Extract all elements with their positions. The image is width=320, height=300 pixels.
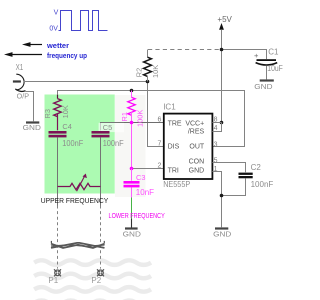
wire dashed +5V feed to R2 top: [148, 49, 222, 51]
wire jack sleeve to GND: [26, 92, 34, 122]
ground GND (IC): [213, 229, 231, 239]
wire R2 top corner: [147, 50, 149, 58]
svg-text:R1: R1: [120, 112, 129, 121]
wire +5V to C1: [222, 50, 267, 60]
svg-text:LOWER FREQUENCY: LOWER FREQUENCY: [109, 213, 166, 220]
pin names: [168, 120, 205, 174]
node +5V dashed junction: [220, 48, 224, 52]
node DIS junction: [146, 80, 150, 84]
wire DIS vertical to pin 7: [148, 82, 164, 147]
waveform graphic: [49, 9, 107, 32]
ground GND (C1): [254, 81, 273, 92]
wire OUT net: pin3 right, up, left to R3: [58, 91, 245, 147]
resistor R1: [120, 91, 145, 169]
svg-text:UPPER FREQUENCY: UPPER FREQUENCY: [41, 198, 109, 205]
svg-text:CON: CON: [189, 158, 205, 165]
op IC1 NE555P body: [157, 102, 217, 188]
svg-text:O/P: O/P: [17, 92, 29, 101]
label box C5: [99, 123, 124, 132]
node TRI junction (magenta): [130, 167, 134, 171]
svg-text:3: 3: [214, 142, 218, 149]
svg-text:10K: 10K: [151, 65, 160, 78]
power +5V: [217, 15, 232, 123]
capacitor C1: [254, 48, 283, 80]
capacitor C5: [92, 123, 124, 148]
arrow frequency up: [4, 51, 88, 60]
svg-text:7: 7: [157, 141, 161, 148]
svg-text:5: 5: [214, 158, 218, 165]
svg-text:GND: GND: [123, 229, 141, 238]
node GND junction: [220, 194, 224, 198]
wire C3 to GND (green net): [131, 198, 133, 219]
capacitor C2: [239, 163, 274, 189]
svg-text:2: 2: [157, 162, 161, 169]
svg-text:VCC+: VCC+: [185, 120, 204, 127]
svg-text:C3: C3: [136, 173, 145, 182]
svg-text:V: V: [54, 9, 59, 16]
svg-text:10K: 10K: [61, 105, 70, 118]
svg-text:C1: C1: [268, 48, 279, 57]
svg-text:IC1: IC1: [163, 102, 176, 111]
svg-text:10uF: 10uF: [267, 64, 283, 73]
svg-text:GND: GND: [213, 230, 231, 239]
svg-text:OUT: OUT: [189, 143, 205, 150]
pin numbers: [157, 116, 217, 173]
ground GND (jack): [23, 123, 41, 133]
wire TRE net: C5 top to pin 6: [101, 123, 164, 131]
svg-text:/RES: /RES: [188, 128, 205, 135]
wire pin 1 to GND: [212, 172, 221, 228]
svg-text:100nF: 100nF: [251, 180, 274, 189]
wire C2 bottom to GND node: [222, 179, 246, 196]
svg-text:DIS: DIS: [168, 143, 180, 150]
arrow wetter: [22, 41, 69, 50]
svg-text:C5: C5: [103, 123, 112, 132]
wire pin 8 stub: [212, 122, 221, 124]
capacitor C3: [124, 169, 155, 198]
pale highlight band around R1/C3: [115, 95, 146, 197]
svg-text:wetter: wetter: [46, 41, 69, 50]
svg-text:R3: R3: [43, 109, 52, 118]
svg-text:6: 6: [157, 116, 161, 123]
variable resistor (water): [58, 174, 101, 192]
svg-text:GND: GND: [254, 82, 272, 91]
green highlight box: [45, 95, 115, 194]
svg-text:+5V: +5V: [217, 15, 232, 24]
svg-text:P1: P1: [48, 276, 58, 285]
ground GND (C3): [123, 229, 141, 239]
svg-text:GND: GND: [189, 168, 205, 175]
capacitor C4: [49, 122, 84, 148]
node +5V pin8 junction: [220, 121, 224, 125]
svg-text:TRI: TRI: [168, 168, 179, 175]
svg-text:P2: P2: [91, 276, 101, 285]
wire C4 down to probe P1: [57, 137, 59, 205]
wire pin 4 stub: [212, 123, 221, 132]
wire jack tip to R2 bottom (DIS net): [24, 81, 148, 83]
svg-text:100nF: 100nF: [103, 139, 124, 148]
svg-text:TRE: TRE: [168, 120, 182, 127]
svg-text:NE555P: NE555P: [163, 180, 190, 189]
svg-text:100K: 100K: [136, 110, 145, 127]
wire dashed probe P2: [100, 206, 102, 269]
svg-text:frequency up: frequency up: [47, 51, 88, 60]
wire pin 5 to C2: [212, 163, 245, 173]
wire GND pin: [131, 219, 133, 228]
svg-text:X1: X1: [16, 63, 24, 72]
svg-text:R2: R2: [134, 68, 143, 77]
svg-text:10nF: 10nF: [136, 188, 154, 197]
svg-text:100nF: 100nF: [62, 139, 83, 148]
soil surface hatch: [51, 241, 105, 248]
node TRE junction (magenta): [130, 121, 134, 125]
resistor R3: [43, 95, 70, 131]
node R1 top junction: [130, 89, 134, 93]
svg-text:GND: GND: [23, 123, 41, 132]
wire C5 down to probe P2: [100, 137, 102, 205]
wire dashed probe P1: [57, 206, 59, 269]
svg-text:C4: C4: [62, 122, 71, 131]
wire TRI: junction to pin 2: [132, 168, 164, 170]
svg-text:+: +: [254, 51, 259, 60]
water waves: [34, 260, 151, 300]
probe P2: [97, 269, 104, 276]
resistor R2: [134, 57, 159, 81]
svg-text:C2: C2: [251, 163, 262, 172]
svg-text:0V: 0V: [49, 25, 58, 32]
connector X1: [13, 63, 29, 100]
probe P1: [54, 269, 61, 276]
